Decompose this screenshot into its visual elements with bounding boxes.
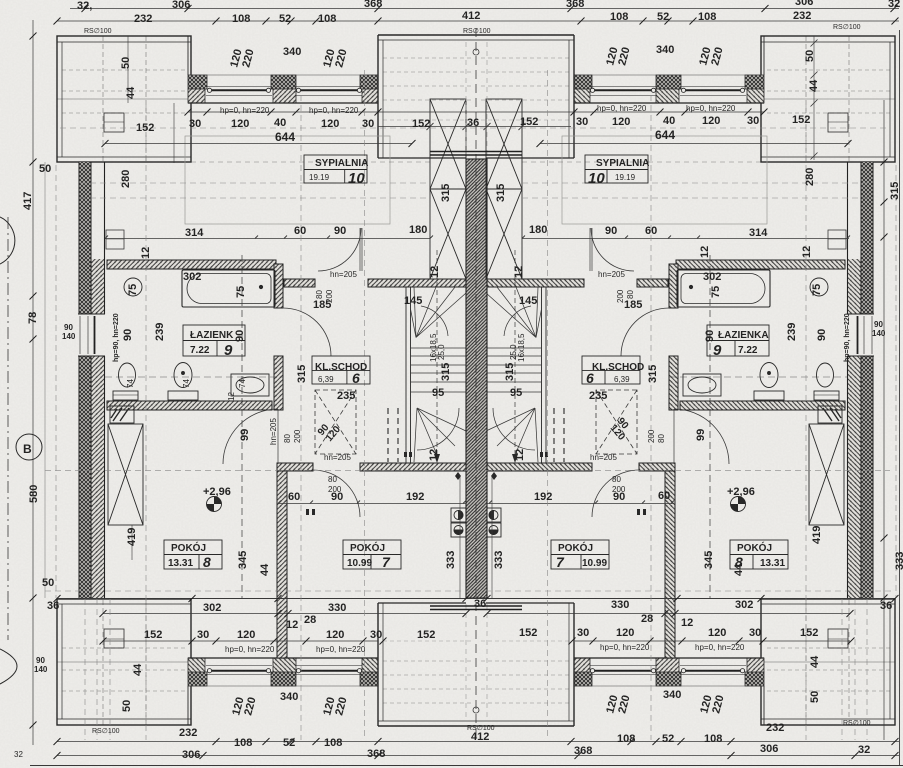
- svg-text:16x18,5: 16x18,5: [517, 333, 526, 362]
- svg-text:13.31: 13.31: [168, 558, 193, 569]
- center shaft dim line: [378, 126, 571, 128]
- svg-text:44: 44: [259, 563, 271, 576]
- svg-text:hp=0, hn=220: hp=0, hn=220: [597, 104, 647, 113]
- svg-text:80: 80: [626, 290, 635, 299]
- svg-text:90: 90: [704, 330, 716, 342]
- svg-text:302: 302: [203, 602, 221, 614]
- svg-text:52: 52: [662, 733, 674, 745]
- svg-text:44: 44: [733, 563, 745, 576]
- svg-text:120: 120: [237, 629, 255, 641]
- svg-text:hn=205: hn=205: [590, 453, 617, 462]
- svg-text:120: 120: [321, 118, 339, 130]
- room vertical dim lines: [132, 475, 492, 598]
- svg-text:192: 192: [406, 491, 424, 503]
- svg-text:50: 50: [120, 57, 132, 69]
- svg-text:36: 36: [467, 117, 479, 129]
- svg-text:306: 306: [182, 749, 200, 761]
- svg-text:333: 333: [493, 551, 505, 569]
- svg-text:145: 145: [404, 295, 422, 307]
- top dim rows: [70, 8, 899, 10]
- svg-text:RS∅100: RS∅100: [84, 28, 112, 35]
- svg-text:30: 30: [576, 116, 588, 128]
- svg-text:152: 152: [136, 122, 154, 134]
- svg-text:340: 340: [656, 44, 674, 56]
- diamonds: [455, 472, 497, 480]
- svg-text:120: 120: [702, 115, 720, 127]
- svg-text:108: 108: [234, 737, 252, 749]
- svg-text:hp=0, hn=220: hp=0, hn=220: [600, 643, 650, 652]
- svg-text:44: 44: [809, 655, 821, 668]
- svg-text:315: 315: [440, 184, 452, 202]
- svg-text:152: 152: [800, 627, 818, 639]
- svg-text:28: 28: [304, 614, 316, 626]
- svg-text:90: 90: [816, 329, 828, 341]
- svg-text:40: 40: [663, 115, 675, 127]
- svg-text:44: 44: [808, 79, 820, 92]
- svg-text:315: 315: [889, 182, 901, 200]
- svg-text:POKÓJ: POKÓJ: [737, 541, 772, 554]
- top interior dim lines: [188, 111, 764, 113]
- svg-text:80: 80: [328, 475, 337, 484]
- svg-text:419: 419: [811, 526, 823, 544]
- svg-text:hn=205: hn=205: [598, 270, 625, 279]
- svg-text:120: 120: [612, 116, 630, 128]
- svg-text:152: 152: [412, 118, 430, 130]
- svg-text:12: 12: [286, 619, 298, 631]
- svg-text:99: 99: [695, 429, 707, 441]
- svg-text:52: 52: [279, 13, 291, 25]
- POKOJ 7 right-of-left-unit: [343, 540, 401, 569]
- svg-text:315: 315: [647, 365, 659, 383]
- svg-text:19.19: 19.19: [309, 173, 330, 182]
- svg-text:9: 9: [713, 342, 722, 359]
- svg-text:9: 9: [224, 342, 233, 359]
- svg-text:80: 80: [283, 434, 292, 443]
- svg-text:7: 7: [556, 554, 565, 570]
- center dashed axis: [475, 28, 477, 742]
- POKOJ 7 right unit: [551, 540, 609, 569]
- svg-text:10.99: 10.99: [347, 558, 372, 569]
- left column: [22, 57, 851, 674]
- svg-text:52: 52: [657, 11, 669, 23]
- svg-text:239: 239: [154, 323, 166, 341]
- svg-text:60: 60: [288, 491, 300, 503]
- svg-text:78: 78: [27, 312, 39, 324]
- svg-text:50: 50: [39, 163, 51, 175]
- svg-text:185: 185: [624, 299, 642, 311]
- svg-text:hp=0, hn=220: hp=0, hn=220: [220, 106, 270, 115]
- svg-text:POKÓJ: POKÓJ: [558, 541, 593, 554]
- svg-text:152: 152: [519, 627, 537, 639]
- svg-text:hp=0, hn=220: hp=0, hn=220: [309, 106, 359, 115]
- svg-text:80: 80: [612, 475, 621, 484]
- svg-text:315: 315: [440, 363, 452, 381]
- KL.SCHOD right: [582, 356, 640, 384]
- svg-text:60: 60: [658, 490, 670, 502]
- svg-text:36: 36: [47, 600, 59, 612]
- svg-text:60: 60: [645, 225, 657, 237]
- KL.SCHOD left: [312, 356, 370, 384]
- svg-text:50: 50: [804, 50, 816, 62]
- svg-text:368: 368: [364, 0, 382, 10]
- svg-text:95: 95: [432, 387, 444, 399]
- svg-text:200: 200: [325, 289, 334, 303]
- svg-text:302: 302: [183, 271, 201, 283]
- svg-text:80: 80: [657, 434, 666, 443]
- svg-text:232: 232: [766, 722, 784, 734]
- svg-text:10.99: 10.99: [582, 558, 607, 569]
- svg-text:75: 75: [127, 284, 139, 296]
- terrace bottom extension dashed: [191, 161, 430, 163]
- svg-text:333: 333: [894, 552, 903, 570]
- svg-text:74: 74: [238, 379, 247, 388]
- svg-text:580: 580: [28, 485, 40, 503]
- svg-text:75: 75: [811, 284, 823, 296]
- svg-text:330: 330: [328, 602, 346, 614]
- svg-text:120: 120: [231, 118, 249, 130]
- svg-text:419: 419: [126, 528, 138, 546]
- svg-text:192: 192: [534, 491, 552, 503]
- svg-text:108: 108: [318, 13, 336, 25]
- svg-text:75: 75: [710, 286, 722, 298]
- svg-text:314: 314: [749, 227, 768, 239]
- svg-text:306: 306: [172, 0, 190, 11]
- svg-text:152: 152: [144, 629, 162, 641]
- svg-text:314: 314: [185, 227, 204, 239]
- svg-text:32,: 32,: [77, 0, 92, 12]
- svg-text:12: 12: [428, 449, 440, 461]
- svg-text:12: 12: [801, 246, 813, 258]
- svg-text:120: 120: [708, 627, 726, 639]
- svg-text:RS∅100: RS∅100: [833, 24, 861, 31]
- svg-text:KL.SCHOD: KL.SCHOD: [592, 362, 644, 373]
- svg-text:36: 36: [880, 600, 892, 612]
- svg-text:315: 315: [296, 365, 308, 383]
- LAZIENKA right: [707, 325, 769, 356]
- svg-text:19.19: 19.19: [615, 173, 636, 182]
- svg-text:333: 333: [445, 551, 457, 569]
- svg-text:280: 280: [120, 170, 132, 188]
- svg-text:32: 32: [888, 0, 900, 10]
- svg-text:12: 12: [699, 246, 711, 258]
- svg-text:RS∅100: RS∅100: [463, 28, 491, 35]
- svg-text:644: 644: [275, 130, 295, 144]
- svg-text:340: 340: [280, 691, 298, 703]
- dim row under top windows: [189, 115, 759, 130]
- svg-text:345: 345: [237, 551, 249, 569]
- svg-text:232: 232: [793, 10, 811, 22]
- svg-text:152: 152: [792, 114, 810, 126]
- svg-text:232: 232: [134, 13, 152, 25]
- svg-text:12: 12: [429, 266, 441, 278]
- svg-text:80: 80: [315, 290, 324, 299]
- SYPIALNIA left: [304, 155, 367, 183]
- svg-text:ŁAZIENK: ŁAZIENK: [190, 330, 234, 341]
- svg-text:108: 108: [324, 737, 342, 749]
- SYPIALNIA right: [585, 155, 648, 183]
- window labels top: [283, 44, 674, 58]
- section line left: [7, 217, 9, 640]
- svg-text:ŁAZIENKA: ŁAZIENKA: [718, 330, 769, 341]
- svg-text:12: 12: [514, 449, 526, 461]
- svg-text:120: 120: [326, 629, 344, 641]
- svg-text:POKÓJ: POKÓJ: [350, 541, 385, 554]
- svg-text:hn=205: hn=205: [269, 418, 278, 445]
- svg-text:302: 302: [735, 599, 753, 611]
- svg-text:152: 152: [417, 629, 435, 641]
- svg-text:90: 90: [331, 491, 343, 503]
- svg-text:POKÓJ: POKÓJ: [171, 541, 206, 554]
- svg-text:28: 28: [641, 613, 653, 625]
- balcony door bottom center: [430, 606, 522, 610]
- svg-text:12: 12: [227, 392, 236, 401]
- svg-text:12: 12: [681, 617, 693, 629]
- svg-text:10: 10: [348, 170, 365, 187]
- svg-text:hp=0, hn=220: hp=0, hn=220: [695, 643, 745, 652]
- svg-text:hp=90, hn=220: hp=90, hn=220: [113, 313, 120, 362]
- svg-text:50: 50: [121, 700, 133, 712]
- svg-text:99: 99: [239, 429, 251, 441]
- svg-text:SYPIALNIA: SYPIALNIA: [596, 158, 649, 169]
- svg-text:hn=205: hn=205: [330, 270, 357, 279]
- svg-text:+2,96: +2,96: [203, 486, 231, 498]
- svg-text:140: 140: [34, 665, 48, 674]
- svg-text:RS∅100: RS∅100: [92, 728, 120, 735]
- svg-text:10: 10: [588, 170, 605, 187]
- svg-text:95: 95: [510, 387, 522, 399]
- svg-text:60: 60: [294, 225, 306, 237]
- svg-text:90: 90: [122, 329, 134, 341]
- bottom dim rows: [57, 741, 899, 743]
- svg-text:417: 417: [22, 192, 34, 210]
- svg-text:200: 200: [293, 429, 302, 443]
- svg-text:306: 306: [760, 743, 778, 755]
- svg-text:180: 180: [409, 224, 427, 236]
- right dim column: [883, 100, 885, 740]
- bottom window labels: [230, 689, 726, 717]
- svg-text:30: 30: [747, 115, 759, 127]
- svg-text:235: 235: [337, 390, 355, 402]
- svg-text:90: 90: [874, 320, 883, 329]
- svg-text:6,39: 6,39: [318, 375, 334, 384]
- svg-text:6,39: 6,39: [614, 375, 630, 384]
- POKOJ 8 left: [164, 540, 222, 569]
- svg-text:140: 140: [872, 329, 886, 338]
- svg-text:108: 108: [698, 11, 716, 23]
- svg-text:8: 8: [203, 554, 211, 570]
- svg-text:108: 108: [704, 733, 722, 745]
- svg-text:302: 302: [703, 271, 721, 283]
- svg-text:368: 368: [367, 748, 385, 760]
- svg-text:200: 200: [616, 289, 625, 303]
- svg-text:7.22: 7.22: [190, 345, 210, 356]
- svg-text:200: 200: [647, 429, 656, 443]
- svg-text:12: 12: [140, 247, 152, 259]
- svg-text:25,0: 25,0: [509, 344, 518, 360]
- svg-text:50: 50: [42, 577, 54, 589]
- svg-text:40: 40: [274, 117, 286, 129]
- svg-text:90: 90: [36, 656, 45, 665]
- svg-text:44: 44: [132, 663, 144, 676]
- svg-text:30: 30: [577, 627, 589, 639]
- svg-text:412: 412: [462, 10, 480, 22]
- shaft X boxes: [430, 99, 522, 279]
- svg-text:239: 239: [786, 323, 798, 341]
- svg-text:30: 30: [362, 118, 374, 130]
- svg-text:120: 120: [616, 627, 634, 639]
- svg-text:25,0: 25,0: [437, 344, 446, 360]
- left dim column: [32, 20, 34, 745]
- svg-text:145: 145: [519, 295, 537, 307]
- svg-text:7.22: 7.22: [738, 345, 758, 356]
- hp hn labels top: [220, 104, 736, 115]
- svg-text:32: 32: [858, 744, 870, 756]
- svg-text:315: 315: [504, 363, 516, 381]
- svg-text:90: 90: [605, 225, 617, 237]
- svg-text:30: 30: [749, 627, 761, 639]
- svg-text:235: 235: [589, 390, 607, 402]
- svg-text:90: 90: [64, 323, 73, 332]
- svg-text:368: 368: [574, 745, 592, 757]
- svg-text:330: 330: [611, 599, 629, 611]
- svg-text:RS∅100: RS∅100: [843, 720, 871, 727]
- svg-text:315: 315: [495, 184, 507, 202]
- svg-text:hp=0, hn=220: hp=0, hn=220: [686, 104, 736, 113]
- svg-text:50: 50: [809, 691, 821, 703]
- svg-text:340: 340: [283, 46, 301, 58]
- corridor dim line y503: [278, 503, 674, 505]
- party wall: [466, 159, 487, 598]
- svg-text:32: 32: [14, 750, 23, 759]
- svg-text:412: 412: [471, 731, 489, 743]
- svg-text:90: 90: [334, 225, 346, 237]
- svg-text:12: 12: [513, 266, 525, 278]
- svg-text:90: 90: [234, 330, 246, 342]
- svg-text:306: 306: [795, 0, 813, 8]
- svg-text:340: 340: [663, 689, 681, 701]
- svg-text:7: 7: [382, 554, 391, 570]
- LAZIENKA left: [183, 325, 245, 356]
- svg-text:30: 30: [370, 629, 382, 641]
- svg-text:368: 368: [566, 0, 584, 10]
- svg-text:6: 6: [586, 370, 594, 386]
- svg-text:74: 74: [126, 379, 135, 388]
- svg-text:36: 36: [474, 598, 486, 610]
- svg-text:44: 44: [125, 86, 137, 99]
- svg-text:30: 30: [197, 629, 209, 641]
- svg-text:280: 280: [804, 168, 816, 186]
- svg-text:13.31: 13.31: [760, 558, 785, 569]
- svg-text:+2,96: +2,96: [727, 486, 755, 498]
- svg-text:hp=0, hn=220: hp=0, hn=220: [316, 645, 366, 654]
- bedroom dim line y233: [105, 238, 849, 240]
- svg-text:52: 52: [283, 737, 295, 749]
- svg-text:hp=0, hn=220: hp=0, hn=220: [225, 645, 275, 654]
- svg-text:180: 180: [529, 224, 547, 236]
- sun symbols: [207, 497, 746, 512]
- right column: [801, 50, 903, 570]
- svg-text:232: 232: [179, 727, 197, 739]
- full width line above bottom rooms: [57, 598, 895, 600]
- svg-text:90: 90: [613, 491, 625, 503]
- POKOJ 8 right unit: [730, 540, 788, 569]
- svg-text:74: 74: [182, 379, 191, 388]
- svg-text:75: 75: [235, 286, 247, 298]
- svg-text:B: B: [23, 442, 32, 456]
- B section marker: [0, 217, 42, 684]
- svg-text:hn=205: hn=205: [324, 453, 351, 462]
- svg-text:hp=90, hn=220: hp=90, hn=220: [844, 313, 851, 362]
- svg-text:140: 140: [62, 332, 76, 341]
- svg-text:644: 644: [655, 128, 675, 142]
- svg-text:108: 108: [617, 733, 635, 745]
- svg-text:108: 108: [610, 11, 628, 23]
- svg-text:108: 108: [232, 13, 250, 25]
- svg-text:6: 6: [352, 370, 360, 386]
- svg-text:SYPIALNIA: SYPIALNIA: [315, 158, 368, 169]
- svg-text:152: 152: [520, 116, 538, 128]
- svg-text:345: 345: [703, 551, 715, 569]
- svg-text:30: 30: [189, 118, 201, 130]
